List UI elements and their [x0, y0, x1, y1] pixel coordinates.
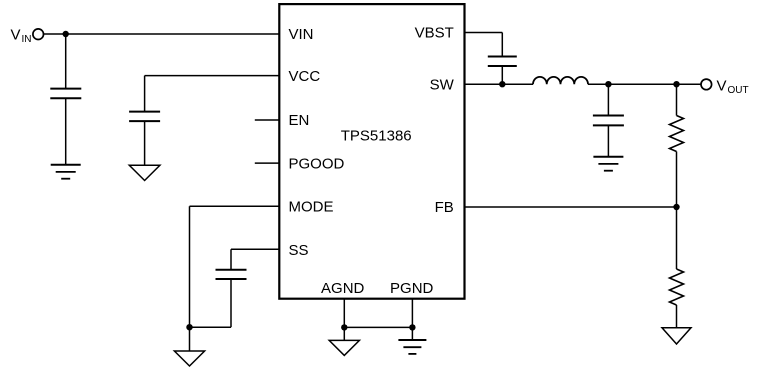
- svg-text:MODE: MODE: [289, 199, 334, 216]
- svg-text:OUT: OUT: [728, 85, 749, 96]
- svg-text:FB: FB: [435, 199, 454, 216]
- svg-text:SW: SW: [430, 76, 455, 93]
- svg-text:TPS51386: TPS51386: [341, 128, 412, 145]
- svg-text:SS: SS: [289, 242, 309, 259]
- svg-text:V: V: [11, 26, 21, 43]
- svg-text:VCC: VCC: [289, 68, 321, 85]
- svg-text:AGND: AGND: [321, 280, 365, 297]
- svg-text:PGND: PGND: [390, 280, 434, 297]
- svg-text:V: V: [717, 77, 727, 94]
- svg-text:PGOOD: PGOOD: [289, 155, 345, 172]
- svg-text:EN: EN: [289, 112, 310, 129]
- svg-text:VBST: VBST: [415, 25, 454, 42]
- svg-text:VIN: VIN: [289, 26, 314, 43]
- svg-text:IN: IN: [22, 34, 32, 45]
